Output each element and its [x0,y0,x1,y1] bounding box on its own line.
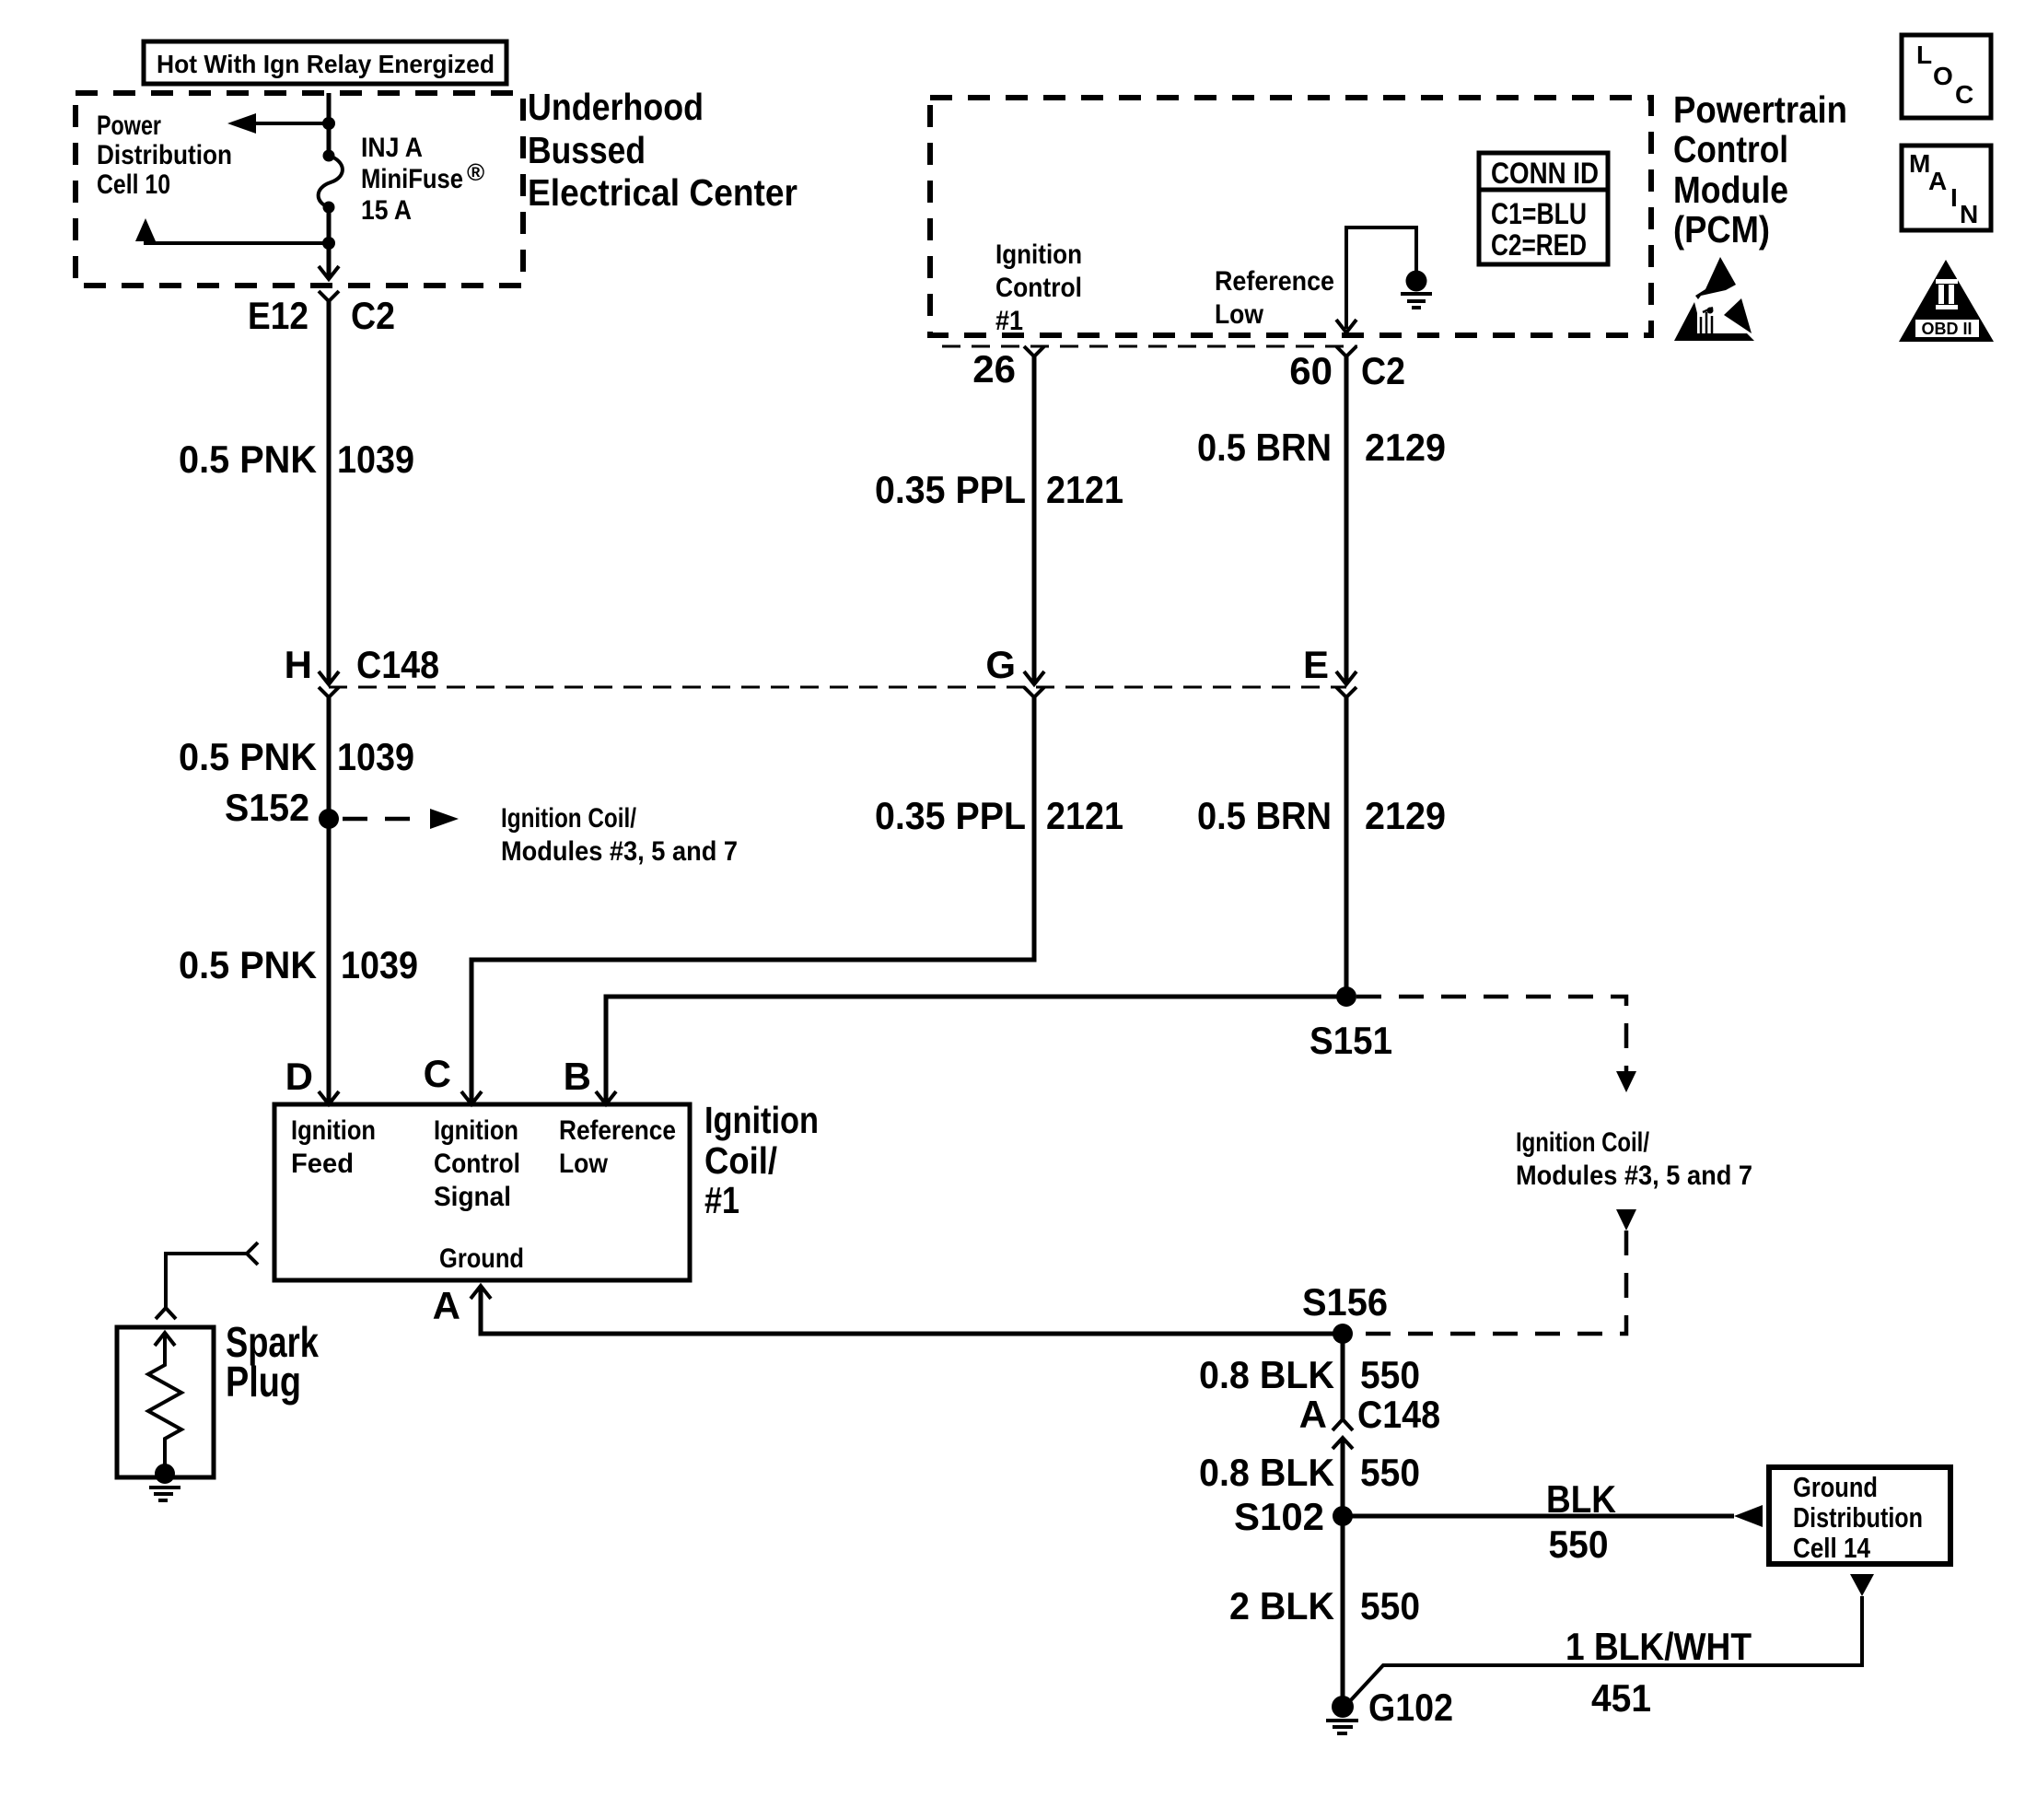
Powertrain Control Module dashed box [930,98,1651,335]
svg-text:550: 550 [1360,1353,1420,1396]
ground symbol G102 [1326,1721,1358,1733]
svg-text:C1=BLU: C1=BLU [1491,197,1587,230]
svg-text:A: A [1299,1393,1327,1436]
wire 0.5 PNK 1039 (segment 2) [327,697,332,1104]
label Ignition Coil/Modules #3, 5 and 7 (near S152) [501,803,738,867]
splice S151 [1336,986,1356,1007]
svg-text:0.35 PPL: 0.35 PPL [875,468,1026,511]
svg-text:Cell 14: Cell 14 [1793,1532,1871,1564]
Underhood Bussed Electrical Center dashed box [76,93,523,286]
wire coil ground to S156 [481,1286,1343,1334]
svg-text:BLK: BLK [1546,1477,1616,1521]
arrow to Ignition Coil/Modules #3,5,7 (filled) [430,809,459,829]
svg-text:Hot With Ign Relay Energized: Hot With Ign Relay Energized [157,50,495,78]
svg-text:Plug: Plug [226,1358,301,1406]
svg-text:#1: #1 [704,1179,739,1221]
node junction to Power Distribution (bottom) [322,237,335,250]
svg-text:Reference: Reference [1215,266,1334,297]
svg-text:0.8 BLK: 0.8 BLK [1199,1353,1334,1396]
svg-text:Ignition: Ignition [434,1115,518,1146]
label Underhood Bussed Electrical Center [528,86,797,214]
svg-text:0.8 BLK: 0.8 BLK [1199,1451,1334,1494]
value label 0.35 PPL 2121 (1) [875,468,1123,511]
svg-text:1 BLK/WHT: 1 BLK/WHT [1566,1625,1752,1668]
svg-text:#1: #1 [995,306,1023,336]
splice S102 [1333,1506,1353,1526]
connector chevron pin 26 [1024,346,1044,356]
svg-text:®: ® [467,158,484,186]
label Power Distribution Cell 10 [97,111,232,200]
svg-text:Reference: Reference [559,1115,676,1146]
arrow to Ground Distribution (filled, pointing left) [1734,1505,1763,1527]
label Ignition Coil/ #1 [704,1099,819,1221]
svg-text:1039: 1039 [341,943,418,986]
value label 0.5 PNK 1039 (1) [179,437,414,481]
CONN ID table [1479,153,1608,264]
Ignition Coil #1 box [274,1104,690,1280]
arrow into connector E12 [319,266,339,279]
value label 0.5 PNK 1039 (2) [179,735,414,778]
wire 0.35 PPL 2121 (segment 2) [471,697,1034,1104]
svg-text:Modules #3, 5 and 7: Modules #3, 5 and 7 [1516,1161,1752,1191]
arrow down from Ignition Coil/Modules (filled) [1616,1209,1636,1231]
svg-text:S151: S151 [1309,1019,1392,1062]
svg-text:26: 26 [972,347,1016,391]
wire feed from ign relay into fuse node [327,93,332,150]
dashed wire from S151 to coil modules 3,5,7 [1356,997,1626,1071]
svg-text:G: G [985,643,1016,686]
arrow into coil pin D [319,1091,339,1104]
svg-text:Bussed: Bussed [528,129,646,171]
label Spark Plug [226,1318,319,1406]
connector G chevron [1024,687,1044,697]
svg-text:O: O [1933,62,1953,90]
svg-text:Feed: Feed [291,1149,354,1179]
arrow into coil ground pin A [471,1286,491,1299]
arrow into coil pin C [461,1091,482,1104]
svg-text:550: 550 [1549,1522,1609,1566]
svg-text:G102: G102 [1368,1686,1453,1729]
splice S156 [1333,1324,1353,1344]
svg-text:Power: Power [97,111,161,141]
svg-text:CONN ID: CONN ID [1491,157,1599,190]
ESD sensitivity symbol (PCM) [1674,257,1754,341]
connector chevron above spark plug [156,1308,176,1319]
svg-text:2121: 2121 [1046,794,1123,837]
svg-text:S102: S102 [1234,1495,1324,1538]
wire 0.5 BRN 2129 (segment 1) [1344,356,1349,684]
svg-text:2129: 2129 [1365,426,1446,469]
MAIN reference box [1902,146,1991,230]
connector line below PCM (thin dashed) [942,345,1357,348]
arrow into connector G C148 [1024,671,1044,684]
svg-text:C2: C2 [351,294,395,337]
value label 0.8 BLK 550 (1) [1199,1353,1420,1396]
svg-text:0.35 PPL: 0.35 PPL [875,794,1026,837]
svg-text:E: E [1303,643,1329,686]
svg-text:Ground: Ground [439,1243,524,1274]
value label 0.5 PNK 1039 (3) [179,943,418,986]
arrow into coil pin B [596,1091,616,1104]
connector line C148 (thin dashed) [329,686,1346,689]
wire reference low to coil pin B [606,997,1346,1104]
ground symbol inside PCM [1401,271,1432,309]
svg-text:2129: 2129 [1365,794,1446,837]
wire coil secondary to spark plug [166,1254,247,1308]
svg-text:E12: E12 [248,294,308,337]
svg-text:MiniFuse: MiniFuse [361,164,463,194]
svg-text:Ignition: Ignition [995,239,1082,270]
svg-text:A: A [433,1284,460,1327]
svg-text:Ignition Coil/: Ignition Coil/ [1516,1127,1650,1158]
svg-text:550: 550 [1360,1451,1420,1494]
svg-text:60: 60 [1289,349,1333,392]
label Ignition Coil/Modules #3, 5 and 7 (right) [1516,1127,1752,1191]
wire fuse output [327,207,332,279]
arrow up to Power Distribution Cell 10 (filled) [135,218,156,241]
splice S152 [319,809,339,829]
svg-text:INJ A: INJ A [361,133,423,163]
svg-text:Ground: Ground [1793,1471,1878,1503]
svg-text:Cell 10: Cell 10 [97,169,170,200]
svg-text:B: B [564,1055,591,1098]
label INJ A MiniFuse (R) 15 A [361,133,484,226]
svg-text:C: C [1955,80,1973,109]
svg-text:C2=RED: C2=RED [1491,228,1587,262]
label Ignition Control #1 [995,239,1082,336]
label Reference Low (coil) [559,1115,676,1179]
svg-text:Signal: Signal [434,1182,511,1212]
value label 0.8 BLK 550 (2) [1199,1451,1420,1494]
connector H C148 chevron [319,687,339,697]
dashed wire from coil modules to S156 [1356,1231,1626,1334]
connector E12 C2 chevron [319,291,339,301]
svg-text:0.5 PNK: 0.5 PNK [179,437,317,481]
label Powertrain Control Module (PCM) [1673,88,1847,251]
svg-text:Coil/: Coil/ [704,1139,777,1182]
Ground Distribution Cell 14 box [1769,1467,1950,1564]
svg-text:Low: Low [1215,299,1264,330]
svg-text:Control: Control [995,273,1082,303]
svg-text:Ignition: Ignition [291,1115,376,1146]
arrow into connector H C148 [319,671,339,684]
wire 0.5 BRN 2129 (segment 2) [1344,697,1349,997]
svg-text:Ignition Coil/: Ignition Coil/ [501,803,637,834]
value label 0.35 PPL 2121 (2) [875,794,1123,837]
wire 0.8 BLK 550 (segment 2) [1341,1438,1345,1702]
value label BLK 550 [1546,1477,1616,1566]
Spark Plug box [117,1327,214,1477]
svg-text:S152: S152 [225,786,309,829]
svg-text:I: I [1950,183,1958,212]
svg-text:0.5 PNK: 0.5 PNK [179,943,317,986]
svg-text:Ignition: Ignition [704,1099,819,1141]
wire branch to Power Distribution arrow (bottom) [145,239,329,243]
connector A C148 chevrons [1333,1419,1353,1449]
svg-text:1039: 1039 [337,437,414,481]
svg-text:C: C [424,1052,451,1095]
arrow down to Ignition Coil/Modules (filled) [1616,1071,1636,1092]
label box "Hot With Ign Relay Energized" [144,41,506,84]
svg-text:S156: S156 [1302,1280,1388,1324]
svg-text:C2: C2 [1361,349,1405,392]
svg-text:550: 550 [1360,1584,1420,1627]
connector chevron pin 60 [1336,346,1356,356]
svg-text:C148: C148 [356,643,439,686]
svg-text:0.5 BRN: 0.5 BRN [1197,426,1332,469]
svg-text:0.5 PNK: 0.5 PNK [179,735,317,778]
LOC reference box [1902,35,1991,118]
value label 1 BLK/WHT 451 [1566,1625,1752,1720]
arrow to Power Distribution Cell 10 (left, filled) [227,113,256,134]
label Ignition Control Signal [434,1115,520,1212]
svg-text:2 BLK: 2 BLK [1229,1584,1334,1627]
OBD II symbol triangle [1899,260,1994,342]
connector E chevron [1336,687,1356,697]
svg-text:C148: C148 [1357,1393,1440,1436]
svg-text:1039: 1039 [337,735,414,778]
svg-text:(PCM): (PCM) [1673,208,1770,251]
node at spark plug base [155,1464,175,1484]
fuse INJ A MiniFuse 15 A [319,150,343,214]
arrow into PCM pin 60 [1336,320,1356,332]
ground symbol at spark plug [149,1487,180,1500]
svg-text:Control: Control [434,1149,520,1179]
wire reference low inside PCM [1346,227,1416,329]
svg-text:451: 451 [1591,1676,1651,1720]
svg-text:Modules #3, 5 and 7: Modules #3, 5 and 7 [501,836,738,867]
svg-text:A: A [1928,167,1947,195]
spark plug gap resistor element [148,1333,181,1472]
wire 1 BLK/WHT 451 [1348,1596,1862,1703]
ground G102 [1332,1696,1354,1718]
label Ignition Feed [291,1115,376,1179]
dashed branch wire from S152 [343,817,425,822]
wire 0.5 PNK 1039 (segment 1) [327,301,332,684]
value label 2 BLK 550 [1229,1584,1420,1627]
node junction to Power Distribution (top) [322,117,335,130]
svg-text:Underhood: Underhood [528,86,704,128]
svg-text:M: M [1909,149,1930,178]
wire 0.8 BLK 550 (segment 1) [1341,1334,1345,1419]
value label 0.5 BRN 2129 (1) [1197,426,1446,469]
svg-text:15 A: 15 A [361,195,412,226]
svg-text:2121: 2121 [1046,468,1123,511]
svg-text:Powertrain: Powertrain [1673,88,1847,131]
svg-text:D: D [285,1055,313,1098]
label Reference Low [1215,266,1334,330]
svg-text:OBD II: OBD II [1921,320,1972,338]
wire branch to Power Distribution arrow (top) [253,122,329,125]
arrow down from Ground Distribution box (filled) [1850,1574,1874,1596]
wire BLK 550 to ground distribution [1343,1514,1734,1519]
arrow inside spark plug (up) [155,1333,175,1346]
svg-text:Electrical Center: Electrical Center [528,171,797,214]
arrow into connector E C148 [1336,671,1356,684]
svg-text:H: H [285,643,312,686]
svg-text:0.5 BRN: 0.5 BRN [1197,794,1332,837]
svg-text:Distribution: Distribution [97,140,232,170]
svg-text:N: N [1960,200,1978,228]
wire 0.35 PPL 2121 (segment 1) [1032,356,1037,684]
svg-text:Low: Low [559,1149,609,1179]
svg-text:Control: Control [1673,128,1788,170]
svg-text:Module: Module [1673,169,1788,211]
value label 0.5 BRN 2129 (2) [1197,794,1446,837]
svg-text:Distribution: Distribution [1793,1501,1923,1534]
connector at coil secondary (left chevron) [247,1242,258,1265]
svg-text:L: L [1916,41,1932,69]
